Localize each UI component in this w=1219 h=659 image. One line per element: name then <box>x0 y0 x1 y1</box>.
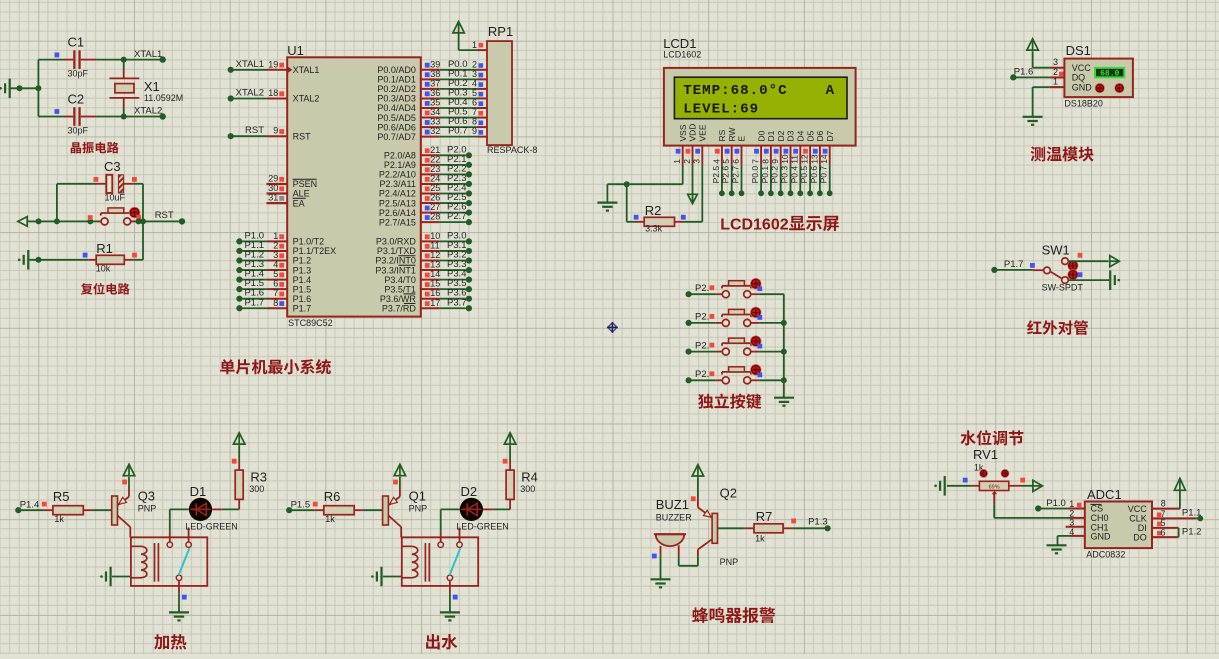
svg-text:P0.3: P0.3 <box>780 166 790 184</box>
wire SW1 lower throw + battery cell <box>1068 270 1120 290</box>
LCD1 pin 4 RS <box>711 129 727 196</box>
resistor R7 <box>718 509 793 544</box>
svg-text:2: 2 <box>682 159 692 164</box>
svg-text:1k: 1k <box>755 533 765 543</box>
U1 pin 22 P2.1 <box>384 154 472 170</box>
caption 晶振电路 <box>71 142 119 154</box>
svg-text:LED-GREEN: LED-GREEN <box>456 522 509 532</box>
svg-text:14: 14 <box>819 154 829 164</box>
svg-text:BUZ1: BUZ1 <box>656 497 689 512</box>
svg-text:6: 6 <box>1160 527 1165 537</box>
svg-text:P2.6: P2.6 <box>721 166 731 184</box>
svg-text:P2.1/A9: P2.1/A9 <box>384 160 416 170</box>
svg-text:2: 2 <box>780 217 789 234</box>
svg-text:XTAL1: XTAL1 <box>134 49 162 60</box>
power terminal cell (relay R6 coil) <box>371 567 402 587</box>
svg-text:28: 28 <box>430 212 440 222</box>
wire P1.3 net <box>791 517 831 532</box>
capacitor C3 <box>94 159 137 203</box>
power arrow (DS1 VCC) <box>1027 39 1039 68</box>
svg-text:36: 36 <box>430 88 440 98</box>
svg-text:RST: RST <box>245 125 264 136</box>
terminal arrow (reset net left) <box>18 217 27 227</box>
svg-text:P1.3: P1.3 <box>808 517 828 528</box>
svg-text:RV1: RV1 <box>973 447 998 462</box>
wire D1 to R3 <box>212 499 239 509</box>
svg-text:P3.7/RD: P3.7/RD <box>382 303 417 313</box>
ADC pin 2 number <box>1069 508 1074 518</box>
svg-text:DQ: DQ <box>1072 73 1086 83</box>
svg-text:4: 4 <box>711 159 721 164</box>
svg-text:P0.1/AD1: P0.1/AD1 <box>377 75 416 85</box>
svg-text:RP1: RP1 <box>488 24 513 39</box>
caption 出水 <box>426 634 457 650</box>
svg-text:LEVEL:69: LEVEL:69 <box>683 101 759 117</box>
svg-text:XTAL1: XTAL1 <box>293 65 320 75</box>
svg-text:P0.4/AD4: P0.4/AD4 <box>377 103 416 113</box>
wire relay to ground <box>179 593 187 612</box>
wire ADC DI <box>1152 518 1179 537</box>
U1 pin 27 P2.6 <box>379 202 472 218</box>
svg-text:13: 13 <box>430 260 440 270</box>
U1 pin 15 P3.5 <box>384 278 472 294</box>
svg-text:D2: D2 <box>776 130 786 141</box>
svg-text:P2.5/A13: P2.5/A13 <box>379 198 416 208</box>
svg-text:XTAL1: XTAL1 <box>236 59 264 70</box>
svg-text:P0.5: P0.5 <box>799 166 809 184</box>
svg-text:P1.2: P1.2 <box>1182 527 1202 538</box>
svg-text:35: 35 <box>430 98 440 108</box>
relay (driver Q1) <box>402 528 478 594</box>
wire D2 to R4 <box>483 499 510 509</box>
svg-text:D2: D2 <box>461 484 478 499</box>
wire P1.7 net <box>991 259 1043 273</box>
wire VEE to R2 <box>684 165 702 222</box>
svg-text:R3: R3 <box>250 470 267 485</box>
U1 pin 31 EA <box>267 193 306 209</box>
wire P0.2 net (U1 pin 37 to RP1 pin 4) <box>377 78 487 94</box>
wire P0.7 net (U1 pin 32 to RP1 pin 9) <box>377 126 487 142</box>
svg-text:3: 3 <box>472 69 477 79</box>
svg-text:TEMP:68.0°C A: TEMP:68.0°C A <box>683 83 835 99</box>
switch SW1 <box>1042 243 1084 293</box>
LCD1 pin 5 RW <box>721 127 737 196</box>
svg-text:SW1: SW1 <box>1042 243 1070 258</box>
push button KEY3 (P2 net) <box>686 336 784 355</box>
power arrow right (RV1) <box>1022 480 1043 491</box>
svg-text:17: 17 <box>430 298 440 308</box>
svg-text:4: 4 <box>1069 527 1074 537</box>
svg-text:8: 8 <box>472 117 477 127</box>
svg-text:2: 2 <box>1053 67 1058 77</box>
svg-text:24: 24 <box>430 173 440 183</box>
temperature sensor DS1 body <box>1064 43 1133 109</box>
svg-text:RST: RST <box>293 131 312 141</box>
U1 pin 25 P2.4 <box>379 183 472 199</box>
svg-text:C2: C2 <box>68 92 85 107</box>
LCD1 pin 10 D3 <box>780 130 796 196</box>
wire RST net row <box>27 210 185 225</box>
svg-text:SW-SPDT: SW-SPDT <box>1042 283 1084 293</box>
svg-text:2: 2 <box>273 240 278 250</box>
power terminal cell (relay R5 coil) <box>100 567 131 587</box>
svg-text:R7: R7 <box>756 509 773 524</box>
svg-text:P1.0: P1.0 <box>1046 498 1066 509</box>
svg-text:P3.4/T0: P3.4/T0 <box>384 275 416 285</box>
wire P0.1 net (U1 pin 38 to RP1 pin 3) <box>377 68 487 84</box>
svg-text:R5: R5 <box>53 489 70 504</box>
wire P0.4 net (U1 pin 35 to RP1 pin 6) <box>377 97 487 113</box>
svg-text:D1: D1 <box>766 130 776 141</box>
svg-text:34: 34 <box>430 107 440 117</box>
svg-text:1: 1 <box>273 231 278 241</box>
svg-text:P3.7: P3.7 <box>447 297 467 308</box>
svg-text:P0.3/AD3: P0.3/AD3 <box>377 94 416 104</box>
svg-text:XTAL2: XTAL2 <box>134 106 162 117</box>
svg-text:1: 1 <box>672 159 682 164</box>
push button KEY4 (P2 net) <box>686 365 784 384</box>
svg-text:300: 300 <box>249 484 264 494</box>
svg-text:P2.: P2. <box>695 283 709 294</box>
svg-text:VEE: VEE <box>698 124 708 141</box>
svg-text:P1.4: P1.4 <box>293 275 312 285</box>
U1 pin 12 P3.2 <box>375 250 472 266</box>
svg-text:0: 0 <box>771 217 780 234</box>
wire P0.6 net (U1 pin 33 to RP1 pin 8) <box>377 116 487 132</box>
svg-text:Q1: Q1 <box>409 489 426 504</box>
U1 pin 6 P1.5 <box>236 278 311 294</box>
svg-text:P0.6/AD6: P0.6/AD6 <box>377 122 416 132</box>
svg-text:RST: RST <box>155 210 174 221</box>
U1 pin 17 P3.7 <box>382 297 472 313</box>
svg-text:1: 1 <box>1053 77 1058 87</box>
LCD LCD1 body <box>663 36 855 146</box>
wire ADC VCC + power arrow <box>1152 478 1185 508</box>
svg-text:D5: D5 <box>805 130 815 141</box>
power terminal BT (crystal bias cell) <box>0 79 11 99</box>
svg-text:P1.7: P1.7 <box>244 297 264 308</box>
svg-text:VCC: VCC <box>1072 63 1092 73</box>
svg-text:P2.7: P2.7 <box>447 211 467 222</box>
wire C3 left loop <box>57 184 97 222</box>
svg-text:STC89C52: STC89C52 <box>288 318 333 328</box>
svg-text:P1.5: P1.5 <box>293 284 312 294</box>
svg-text:3.3k: 3.3k <box>645 224 663 234</box>
svg-text:9: 9 <box>770 159 780 164</box>
svg-text:U1: U1 <box>287 43 304 58</box>
U1 pin 30 ALE <box>267 183 310 199</box>
svg-text:D3: D3 <box>786 130 796 141</box>
U1 pin 23 P2.2 <box>379 163 472 179</box>
svg-text:32: 32 <box>430 126 440 136</box>
svg-text:P0.0/AD0: P0.0/AD0 <box>377 65 416 75</box>
wire XTAL2 net <box>96 106 166 120</box>
svg-text:D1: D1 <box>190 484 207 499</box>
wire SW1 upper throw + power arrow <box>1068 256 1119 267</box>
svg-text:10: 10 <box>430 231 440 241</box>
ground (ADC) <box>1047 545 1067 553</box>
U1 pin 5 P1.4 <box>236 269 311 285</box>
wire buzzer to ground <box>652 554 661 579</box>
svg-text:38: 38 <box>430 69 440 79</box>
svg-text:P2.: P2. <box>695 369 709 380</box>
wire P1.6 net (DS1 DQ) <box>1010 67 1064 81</box>
svg-text:4: 4 <box>472 78 477 88</box>
U1 pin 11 P3.1 <box>377 240 472 256</box>
caption 水位调节 <box>960 430 1023 445</box>
svg-text:4: 4 <box>273 260 278 270</box>
svg-text:PNP: PNP <box>720 557 739 567</box>
svg-text:25: 25 <box>430 183 440 193</box>
caption 独立按键 <box>698 394 761 409</box>
svg-text:XTAL2: XTAL2 <box>236 88 264 99</box>
microcontroller U1 body <box>287 43 421 328</box>
transistor Q3 (PNP) <box>112 488 157 537</box>
svg-text:P1.6: P1.6 <box>293 294 312 304</box>
svg-text:Q3: Q3 <box>138 489 155 504</box>
U1 pin 10 P3.0 <box>376 230 472 246</box>
svg-text:P1.3: P1.3 <box>293 265 312 275</box>
LCD1 pin 11 D4 <box>789 130 805 196</box>
wire XTAL1 net <box>96 49 166 63</box>
svg-text:P2.: P2. <box>695 340 709 351</box>
svg-text:GND: GND <box>1072 82 1093 92</box>
svg-text:14: 14 <box>430 269 440 279</box>
svg-text:11.0592M: 11.0592M <box>144 93 183 103</box>
resistor R5 <box>43 489 111 524</box>
svg-text:R6: R6 <box>324 489 341 504</box>
svg-text:Q2: Q2 <box>720 486 737 501</box>
LCD1 pin 1 VSS <box>672 124 688 165</box>
svg-text:P0.2/AD2: P0.2/AD2 <box>377 84 416 94</box>
svg-text:12: 12 <box>430 250 440 260</box>
svg-text:P0.0: P0.0 <box>750 166 760 184</box>
svg-text:P0.1: P0.1 <box>760 166 770 184</box>
svg-text:31: 31 <box>268 193 278 203</box>
wire P0.3 net (U1 pin 36 to RP1 pin 5) <box>377 87 487 103</box>
power arrow (Q3 emitter) <box>122 464 135 488</box>
svg-text:XTAL2: XTAL2 <box>293 94 320 104</box>
svg-text:19: 19 <box>268 59 278 69</box>
LCD1 pin 2 VDD <box>682 124 698 165</box>
LCD1 pin 6 E <box>731 136 747 197</box>
U1 pin 2 P1.1 <box>236 240 336 256</box>
svg-text:1: 1 <box>753 217 762 234</box>
reset button <box>87 207 141 225</box>
svg-text:9: 9 <box>273 126 278 136</box>
svg-text:1k: 1k <box>54 514 64 524</box>
svg-text:16: 16 <box>430 288 440 298</box>
svg-text:D7: D7 <box>825 130 835 141</box>
caption 复位电路 <box>81 283 130 295</box>
svg-text:ADC0832: ADC0832 <box>1086 550 1125 560</box>
origin marker <box>607 322 617 332</box>
transistor Q2 (PNP) <box>698 486 738 568</box>
svg-text:2: 2 <box>472 59 477 69</box>
svg-text:P2.5: P2.5 <box>711 166 721 184</box>
svg-text:ADC1: ADC1 <box>1087 487 1122 502</box>
U1 pin 3 P1.2 <box>236 250 311 266</box>
svg-text:12: 12 <box>800 154 810 164</box>
ground (relay Q1) <box>440 612 460 620</box>
svg-text:RW: RW <box>727 127 737 141</box>
svg-text:R1: R1 <box>96 241 113 256</box>
svg-text:D: D <box>742 217 754 234</box>
svg-text:15: 15 <box>430 279 440 289</box>
wire P0.0 net (U1 pin 39 to RP1 pin 2) <box>377 59 487 75</box>
wire Q2 collector to buzzer <box>679 545 698 566</box>
svg-text:P2.: P2. <box>695 312 709 323</box>
LCD1 pin 9 D2 <box>770 130 786 196</box>
svg-text:RS: RS <box>717 129 727 141</box>
svg-text:GND: GND <box>1091 532 1112 542</box>
ADC chip ADC1 body <box>1085 487 1152 560</box>
transistor Q1 (PNP) <box>383 488 428 537</box>
svg-text:23: 23 <box>430 164 440 174</box>
svg-text:7: 7 <box>472 107 477 117</box>
svg-text:R2: R2 <box>645 203 662 218</box>
LCD1 pin 8 D1 <box>760 130 776 196</box>
svg-text:P2.6/A14: P2.6/A14 <box>379 208 416 218</box>
svg-text:P2.2/A10: P2.2/A10 <box>379 170 416 180</box>
wire relay to ground <box>450 593 458 612</box>
svg-text:DS18B20: DS18B20 <box>1064 99 1103 109</box>
svg-text:P1.4: P1.4 <box>20 499 40 510</box>
svg-text:8: 8 <box>273 298 278 308</box>
svg-text:10uF: 10uF <box>105 193 126 203</box>
capacitor C2 <box>38 92 96 136</box>
svg-text:D4: D4 <box>796 130 806 141</box>
push button KEY1 (P2 net) <box>686 279 784 298</box>
wire R2 left vertical <box>627 184 635 222</box>
svg-text:300: 300 <box>520 484 535 494</box>
wire VSS to ground <box>607 165 682 188</box>
power terminal cell at R1 <box>18 250 30 270</box>
U1 pin 7 P1.6 <box>236 288 311 304</box>
wire button common bus <box>781 294 787 397</box>
svg-text:5: 5 <box>472 88 477 98</box>
svg-text:69%: 69% <box>989 484 1000 490</box>
svg-text:6: 6 <box>273 279 278 289</box>
caption LCD1602显示屏 <box>720 216 839 234</box>
potentiometer RV1 <box>947 447 1025 495</box>
svg-text:P1.1: P1.1 <box>1182 508 1202 519</box>
svg-text:68.0: 68.0 <box>1100 69 1119 78</box>
power arrow (R3) <box>232 433 245 464</box>
power arrow (Q1 emitter) <box>393 464 406 488</box>
wire P1.1 net (ADC CLK) <box>1152 508 1203 522</box>
U1 pin 13 P3.3 <box>375 259 472 275</box>
U1 pin 16 P3.6 <box>380 288 472 304</box>
power arrow above RP1 <box>453 22 487 51</box>
U1 pin 21 P2.0 <box>384 144 472 160</box>
ground (buttons) <box>774 398 794 406</box>
relay (driver Q3) <box>131 528 207 594</box>
svg-text:C: C <box>730 217 742 234</box>
svg-text:P2.3/A11: P2.3/A11 <box>380 179 416 189</box>
wire C3/R1 right vertical <box>133 184 146 260</box>
U1 pin 19 XTAL1 <box>228 59 320 75</box>
svg-text:LCD1602: LCD1602 <box>663 50 701 60</box>
caption 测温模块 <box>1031 146 1094 161</box>
capacitor C1 <box>38 35 96 79</box>
svg-text:VDD: VDD <box>688 124 698 142</box>
svg-text:P2.7/A15: P2.7/A15 <box>379 217 416 227</box>
U1 pin 1 P1.0 <box>236 230 324 246</box>
svg-text:6: 6 <box>472 98 477 108</box>
svg-text:1: 1 <box>472 40 477 50</box>
wire P1.5 net <box>286 499 317 513</box>
ADC pin 3 CH1 stub <box>1066 518 1085 528</box>
LCD1 pin 7 D0 <box>750 130 766 196</box>
svg-text:EA: EA <box>293 198 305 208</box>
wire P0.5 net (U1 pin 34 to RP1 pin 7) <box>377 107 487 123</box>
svg-text:P0.5/AD5: P0.5/AD5 <box>377 113 416 123</box>
svg-text:27: 27 <box>430 202 440 212</box>
resistor R6 <box>314 489 382 524</box>
svg-text:13: 13 <box>809 154 819 164</box>
ground (relay Q3) <box>169 612 189 620</box>
U1 pin 8 P1.7 <box>236 297 311 313</box>
svg-text:P0.6: P0.6 <box>809 166 819 184</box>
power arrow (Q2 emitter) <box>691 465 704 502</box>
svg-text:PNP: PNP <box>138 504 157 514</box>
wire ADC GND <box>1058 527 1085 545</box>
svg-text:D6: D6 <box>815 130 825 141</box>
U1 pin 28 P2.7 <box>379 211 472 227</box>
U1 pin 4 P1.3 <box>236 259 311 275</box>
resistor R2 <box>634 203 686 234</box>
svg-text:30pF: 30pF <box>68 69 89 79</box>
svg-text:8: 8 <box>1161 499 1166 509</box>
push button KEY2 (P2 net) <box>686 307 784 326</box>
svg-text:PSEN: PSEN <box>293 179 318 189</box>
svg-text:P1.6: P1.6 <box>1014 67 1034 78</box>
ground (buzzer) <box>651 579 671 587</box>
svg-text:6: 6 <box>731 159 741 164</box>
svg-text:P3.2/INT0: P3.2/INT0 <box>375 256 416 266</box>
svg-text:18: 18 <box>268 88 278 98</box>
svg-text:33: 33 <box>430 117 440 127</box>
svg-text:VCC: VCC <box>1128 504 1148 514</box>
svg-text:P3.0/RXD: P3.0/RXD <box>376 237 417 247</box>
LED D1 (LED-GREEN) <box>185 484 238 532</box>
svg-text:7: 7 <box>751 159 761 164</box>
ground (LCD VSS) <box>597 184 617 210</box>
svg-text:29: 29 <box>268 174 278 184</box>
U1 pin 14 P3.4 <box>384 269 472 285</box>
LCD1 pin 13 D6 <box>809 130 825 196</box>
svg-text:7: 7 <box>273 288 278 298</box>
ground (DS1) <box>1023 117 1043 125</box>
svg-text:C1: C1 <box>68 35 85 50</box>
svg-text:37: 37 <box>430 78 440 88</box>
svg-text:9: 9 <box>472 126 477 136</box>
resistor R4 <box>506 461 538 500</box>
U1 pin 24 P2.3 <box>380 173 472 189</box>
wire P1.4 net <box>15 499 47 513</box>
LCD1 pin 12 D5 <box>799 130 815 196</box>
caption 蜂鸣器报警 <box>692 607 775 623</box>
svg-text:BUZZER: BUZZER <box>656 513 693 523</box>
svg-text:8: 8 <box>760 159 770 164</box>
svg-text:P1.1/T2EX: P1.1/T2EX <box>293 246 337 256</box>
svg-text:11: 11 <box>790 155 800 164</box>
wire relay contact to D1 <box>170 509 189 532</box>
svg-text:39: 39 <box>430 59 440 69</box>
svg-text:P0.4: P0.4 <box>789 166 799 184</box>
wire RV1 wiper to ADC CH0 <box>994 494 1085 518</box>
